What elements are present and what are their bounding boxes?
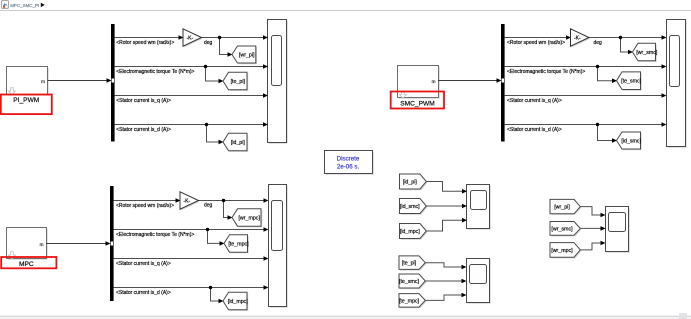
svg-text:[id_mpc]: [id_mpc] [400, 229, 421, 235]
svg-text:[id_mpc]: [id_mpc] [228, 299, 249, 305]
svg-text:<Electromagnetic torque Te (N*: <Electromagnetic torque Te (N*m)> [116, 69, 194, 75]
svg-text:<Stator current is_q (A)>: <Stator current is_q (A)> [116, 98, 171, 104]
svg-text:<Stator current is_d (A)>: <Stator current is_d (A)> [507, 127, 562, 133]
svg-text:<Electromagnetic torque Te (N*: <Electromagnetic torque Te (N*m)> [507, 69, 585, 75]
svg-text:[id_pi]: [id_pi] [231, 140, 246, 146]
svg-text:[id_smc]: [id_smc] [400, 204, 420, 210]
svg-text:[wr_pi]: [wr_pi] [554, 205, 570, 211]
svg-text:<Stator current is_q (A)>: <Stator current is_q (A)> [507, 98, 562, 104]
svg-text:MPC_SMC_PI: MPC_SMC_PI [10, 3, 39, 8]
svg-text:m: m [41, 79, 45, 84]
svg-text:[wr_mpc]: [wr_mpc] [551, 248, 573, 254]
svg-text:SMC_PWM: SMC_PWM [400, 101, 434, 108]
svg-text:-K-: -K- [183, 198, 190, 204]
svg-text:<Rotor speed wm (rad/s)>: <Rotor speed wm (rad/s)> [116, 40, 174, 46]
svg-text:-K-: -K- [574, 35, 581, 41]
svg-text:deg: deg [594, 40, 603, 46]
svg-text:deg: deg [204, 202, 213, 208]
svg-text:[te_smc]: [te_smc] [621, 79, 642, 85]
svg-text:<Stator current is_d (A)>: <Stator current is_d (A)> [116, 290, 171, 296]
svg-text:deg: deg [204, 40, 213, 46]
svg-text:[id_pi]: [id_pi] [403, 179, 418, 185]
svg-text:m: m [432, 79, 436, 84]
svg-text:[wr_smc]: [wr_smc] [636, 50, 658, 56]
svg-text:[id_smc]: [id_smc] [621, 138, 641, 144]
svg-text:<Rotor speed wm (rad/s)>: <Rotor speed wm (rad/s)> [116, 203, 174, 209]
svg-text:m: m [40, 242, 44, 247]
svg-text:[te_pi]: [te_pi] [231, 79, 246, 85]
svg-text:[te_smc]: [te_smc] [399, 279, 420, 285]
svg-text:[wr_smc]: [wr_smc] [551, 226, 573, 232]
svg-text:<Stator current is_q (A)>: <Stator current is_q (A)> [116, 261, 171, 267]
svg-text:PI_PWM: PI_PWM [13, 97, 39, 104]
svg-text:MPC: MPC [19, 261, 34, 268]
svg-text:<Rotor speed wm (rad/s)>: <Rotor speed wm (rad/s)> [507, 40, 565, 46]
svg-text:[te_mpc]: [te_mpc] [228, 241, 249, 247]
svg-text:[te_pi]: [te_pi] [402, 261, 417, 267]
svg-text:<Electromagnetic torque Te (N*: <Electromagnetic torque Te (N*m)> [116, 232, 194, 238]
svg-text:[wr_mpc]: [wr_mpc] [238, 215, 260, 221]
svg-text:2e-06 s.: 2e-06 s. [337, 164, 360, 171]
svg-text:Discrete: Discrete [337, 156, 360, 163]
svg-text:<Stator current is_d (A)>: <Stator current is_d (A)> [116, 127, 171, 133]
svg-text:[te_mpc]: [te_mpc] [399, 298, 420, 304]
svg-text:[wr_pi]: [wr_pi] [239, 52, 255, 58]
svg-text:-K-: -K- [186, 35, 193, 41]
